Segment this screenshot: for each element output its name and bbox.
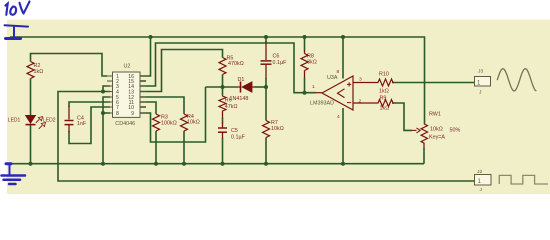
resistor R6 bottom lead bbox=[222, 112, 224, 119]
resistor R3 labels bbox=[161, 115, 177, 127]
svg-text:CD4046: CD4046 bbox=[115, 121, 135, 127]
resistor R7 bbox=[263, 121, 270, 138]
wire U2 pin3 stub to pin4 net bbox=[103, 86, 110, 92]
wire U2 pin4 to J2 (square out) bbox=[58, 92, 475, 182]
diode D1 1N4148 bbox=[237, 82, 254, 93]
wire diode node to R7 bbox=[265, 87, 267, 121]
ground annotation (blue ink) bbox=[2, 164, 26, 184]
capacitor C4 bottom lead bbox=[68, 125, 70, 132]
resistor R6 labels bbox=[225, 98, 238, 111]
capacitor C4 bbox=[65, 121, 74, 125]
svg-text:8: 8 bbox=[116, 111, 119, 117]
resistor R4 bbox=[181, 114, 188, 131]
svg-text:3: 3 bbox=[359, 77, 362, 83]
LED labels bbox=[8, 117, 56, 123]
resistor R7 labels bbox=[271, 120, 284, 132]
wire R9 right to pot wiper bbox=[392, 103, 412, 130]
svg-text:0.1µF: 0.1µF bbox=[273, 60, 288, 66]
handwritten 10V text bbox=[5, 2, 29, 15]
wire U2 pin16 to VDD rail bbox=[140, 37, 151, 76]
svg-text:Key=A: Key=A bbox=[429, 135, 445, 141]
wire potentiometer bottom to rail bbox=[423, 148, 425, 164]
svg-text:C5: C5 bbox=[231, 128, 238, 134]
resistor R5 labels bbox=[227, 56, 244, 68]
svg-text:1nF: 1nF bbox=[77, 121, 87, 127]
capacitor C5 bbox=[218, 128, 227, 132]
capacitor C5 labels bbox=[231, 128, 246, 140]
connector J2 labels bbox=[477, 169, 483, 193]
wire U2 pin7 to C4 bottom bbox=[69, 107, 110, 144]
IC U2 pin stubs bbox=[107, 76, 146, 113]
wire R8 top from rail bbox=[304, 37, 306, 51]
svg-text:LED1: LED1 bbox=[8, 117, 21, 123]
wire bottom ground rail bbox=[9, 163, 424, 165]
svg-text:1kΩ: 1kΩ bbox=[34, 69, 44, 75]
wire U2 pin6 to C4 top bbox=[69, 102, 110, 107]
resistor R8 bbox=[301, 54, 308, 71]
resistor R3 bbox=[153, 114, 160, 131]
resistor R2 labels bbox=[34, 63, 44, 75]
wire U2 pin12 to R4 top bbox=[140, 97, 184, 114]
svg-text:2: 2 bbox=[359, 98, 362, 104]
svg-text:10kΩ: 10kΩ bbox=[430, 126, 443, 132]
wire U2 pin9 to loop filter node bbox=[140, 87, 206, 142]
sine wave annotation bbox=[497, 69, 536, 91]
svg-text:C6: C6 bbox=[273, 54, 280, 60]
potentiometer RW1 bottom lead bbox=[423, 143, 425, 149]
svg-text:4: 4 bbox=[337, 114, 340, 120]
capacitor C6 top lead bbox=[265, 41, 267, 60]
wire R6 to C5 bbox=[222, 118, 224, 124]
svg-text:10kΩ: 10kΩ bbox=[187, 120, 200, 126]
svg-text:1N4148: 1N4148 bbox=[230, 96, 249, 102]
capacitor C6 labels bbox=[273, 54, 288, 66]
resistor R9 bbox=[377, 100, 394, 107]
potentiometer RW1 bbox=[412, 124, 428, 143]
svg-text:9: 9 bbox=[131, 111, 134, 117]
resistor R8 labels bbox=[307, 54, 317, 66]
resistor R10 bbox=[377, 79, 394, 86]
wire U2 pin14 to comparator output bbox=[140, 43, 316, 93]
resistor R8 top lead bbox=[304, 50, 306, 54]
resistor R2 bbox=[27, 62, 34, 79]
svg-text:8: 8 bbox=[337, 69, 340, 75]
IC U2 CD4046 body bbox=[113, 72, 141, 117]
capacitor C5 bottom lead bbox=[222, 133, 224, 140]
resistor R6 bbox=[219, 95, 226, 112]
resistor R9 labels bbox=[380, 96, 390, 112]
svg-text:1kΩ: 1kΩ bbox=[380, 106, 390, 112]
resistor R10 labels bbox=[379, 71, 389, 94]
connector J2 bbox=[475, 175, 492, 186]
wire C6 bottom to diode node bbox=[265, 78, 267, 87]
op-amp pin numbers bbox=[312, 69, 362, 120]
svg-text:LM393AD: LM393AD bbox=[310, 100, 334, 106]
wire diode row right bbox=[254, 86, 266, 88]
capacitor C4 labels bbox=[77, 116, 87, 128]
svg-text:RW1: RW1 bbox=[429, 111, 441, 117]
capacitor C5 top lead bbox=[222, 123, 224, 128]
IC U2 labels bbox=[115, 63, 135, 127]
svg-text:D1: D1 bbox=[238, 77, 245, 83]
potentiometer RW1 labels bbox=[429, 111, 460, 140]
wire U2 pin10 stub bbox=[140, 106, 146, 108]
svg-text:1: 1 bbox=[312, 84, 315, 90]
svg-text:100kΩ: 100kΩ bbox=[161, 120, 177, 126]
resistor R8 bottom lead bbox=[304, 71, 306, 79]
wire R3 bottom to ground rail bbox=[155, 131, 157, 164]
wire R10 right to J3 bbox=[392, 82, 475, 84]
svg-text:U3A: U3A bbox=[327, 75, 338, 81]
svg-text:47kΩ: 47kΩ bbox=[225, 104, 238, 110]
svg-text:LED2: LED2 bbox=[43, 118, 56, 124]
svg-text:3kΩ: 3kΩ bbox=[307, 59, 317, 65]
wire R7 bottom to ground rail bbox=[265, 138, 267, 164]
square wave annotation bbox=[499, 175, 548, 184]
svg-text:1kΩ: 1kΩ bbox=[379, 88, 389, 94]
wire U2 pin15 stub bbox=[140, 80, 146, 82]
svg-text:U2: U2 bbox=[124, 63, 131, 69]
node junction dots bbox=[29, 35, 346, 166]
wire R2 top to U2 pin1 bbox=[31, 54, 108, 77]
svg-text:470kΩ: 470kΩ bbox=[228, 61, 244, 67]
wire op-amp pin4 to ground rail bbox=[342, 108, 344, 164]
capacitor C6 bbox=[261, 61, 272, 64]
op-amp labels bbox=[310, 75, 338, 106]
resistor R4 labels bbox=[187, 114, 200, 126]
svg-text:R9: R9 bbox=[380, 96, 387, 102]
LED LED1 bbox=[26, 115, 46, 128]
wire op-amp pin8 to VDD rail bbox=[342, 37, 344, 79]
op-amp U3A LM393AD bbox=[316, 76, 377, 110]
svg-text:0.1µF: 0.1µF bbox=[231, 134, 246, 140]
wire R5 bottom to node bbox=[222, 75, 224, 88]
diode D1 labels bbox=[230, 77, 249, 102]
svg-text:J3: J3 bbox=[478, 68, 483, 74]
wire U2 pin11 to R3 top bbox=[140, 102, 156, 114]
wire R2 bottom to LED1 bbox=[30, 79, 32, 116]
wire R4 bottom to ground rail bbox=[183, 131, 185, 164]
connector J3 labels bbox=[478, 68, 483, 95]
svg-text:R10: R10 bbox=[379, 71, 389, 77]
wire U2 pin5 to ground bbox=[103, 97, 110, 164]
svg-text:J2: J2 bbox=[477, 169, 482, 175]
wire top VDD rail bbox=[10, 37, 425, 125]
capacitor C6 bottom lead bbox=[265, 65, 267, 79]
wire U2 pin8 stub bbox=[103, 112, 110, 114]
connector J3 bbox=[475, 77, 491, 87]
resistor R5 bbox=[219, 58, 226, 75]
svg-text:10kΩ: 10kΩ bbox=[271, 126, 284, 132]
wire LED1 bottom to ground rail bbox=[30, 125, 32, 164]
wire diode row left bbox=[206, 86, 238, 88]
wire R8 bottom to output node bbox=[304, 78, 306, 93]
svg-text:50%: 50% bbox=[450, 128, 461, 134]
wire U2 pin13 to R5 top bbox=[140, 50, 223, 92]
battery annotation 10V (blue ink) bbox=[5, 25, 29, 38]
capacitor C4 top lead bbox=[68, 106, 70, 120]
wire node to R6 top bbox=[222, 87, 224, 95]
wire C5 bottom to ground rail bbox=[222, 138, 224, 164]
IC U2 pin numbers bbox=[116, 74, 134, 117]
wire C6 column top bbox=[265, 37, 267, 42]
